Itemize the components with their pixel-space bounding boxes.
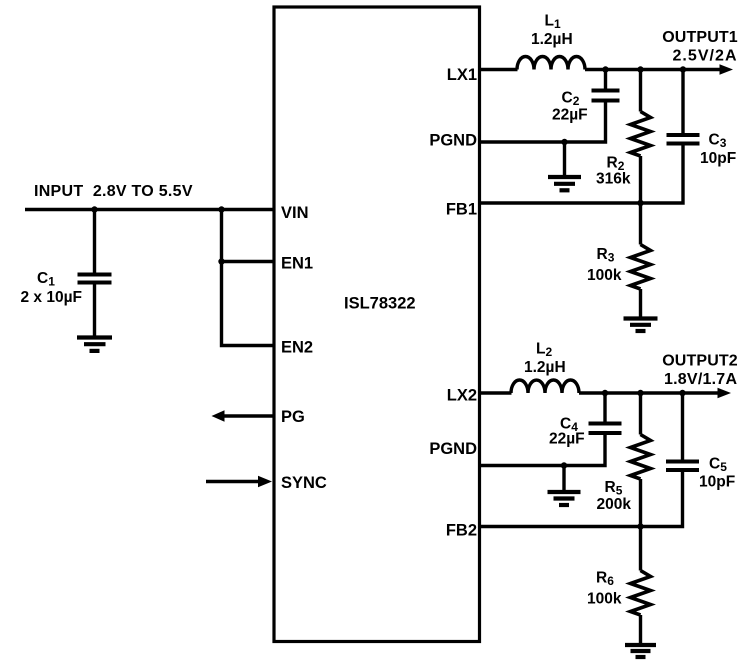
node junction input/C1	[91, 206, 97, 212]
svg-text:1.2µH: 1.2µH	[524, 359, 566, 376]
capacitor C4	[589, 393, 622, 433]
node junction output2/C4	[602, 390, 608, 396]
wire EN1	[222, 260, 275, 263]
capacitor C1	[78, 210, 112, 337]
svg-text:316k: 316k	[596, 171, 631, 188]
node junction FB2/R5/R6	[637, 523, 643, 529]
wire FB2	[480, 472, 683, 527]
svg-text:100k: 100k	[587, 267, 622, 284]
IC U1 ISL78322 body	[274, 7, 480, 642]
svg-text:100k: 100k	[587, 591, 622, 608]
svg-text:22µF: 22µF	[552, 107, 588, 124]
wire PG	[222, 414, 274, 417]
svg-text:2.5V/2A: 2.5V/2A	[673, 48, 737, 65]
capacitor C5	[666, 393, 699, 470]
wire PGND2	[480, 435, 606, 466]
ground below R6	[625, 645, 656, 657]
svg-text:200k: 200k	[597, 496, 632, 513]
arrowhead PG (points left)	[212, 410, 225, 421]
capacitor C2	[592, 70, 620, 101]
svg-text:PGND: PGND	[429, 440, 477, 458]
ground below PGND2	[548, 466, 581, 506]
wire input rail to VIN	[25, 208, 274, 211]
arrowhead OUTPUT1	[720, 64, 734, 74]
wire output1 rail	[585, 68, 721, 71]
svg-text:SYNC: SYNC	[281, 474, 327, 492]
svg-text:PG: PG	[281, 408, 305, 426]
svg-text:VIN: VIN	[281, 204, 309, 222]
node junction output1/C3	[680, 66, 686, 72]
arrowhead SYNC (points right)	[258, 476, 272, 488]
inductor L1	[517, 57, 585, 70]
node junction FB1/R2/R3	[637, 200, 643, 206]
resistor R6	[631, 527, 651, 644]
node junction PGND2/ground	[561, 462, 567, 468]
arrowhead OUTPUT2	[718, 388, 732, 398]
ground below PGND1	[548, 142, 581, 190]
svg-text:EN1: EN1	[281, 255, 313, 273]
svg-text:EN2: EN2	[281, 339, 313, 357]
node junction input/EN branch	[218, 206, 224, 212]
svg-text:INPUT 2.8V TO 5.5V: INPUT 2.8V TO 5.5V	[34, 183, 193, 200]
svg-text:10pF: 10pF	[700, 150, 736, 167]
wire LX2 pin stub	[480, 391, 512, 394]
node junction output1/R2	[637, 66, 643, 72]
inductor L2	[511, 380, 579, 393]
svg-text:LX2: LX2	[447, 387, 477, 405]
wire PGND1	[480, 103, 606, 143]
wire SYNC	[206, 480, 259, 483]
node junction output2/R5	[637, 390, 643, 396]
svg-text:OUTPUT1: OUTPUT1	[662, 29, 738, 46]
wire LX1 pin stub	[480, 68, 518, 71]
svg-text:PGND: PGND	[429, 132, 477, 150]
svg-text:OUTPUT2: OUTPUT2	[662, 353, 738, 370]
capacitor C3	[667, 70, 700, 144]
svg-text:1.8V/1.7A: 1.8V/1.7A	[664, 371, 737, 388]
node junction EN branch/EN1	[218, 258, 224, 264]
resistor R2	[631, 70, 651, 204]
svg-text:FB2: FB2	[446, 522, 477, 540]
wire FB1	[480, 146, 684, 204]
wire EN branch vertical and EN2	[222, 210, 275, 346]
node junction output2/C5	[679, 390, 685, 396]
resistor R3	[631, 203, 651, 317]
node junction output1/C2	[602, 66, 608, 72]
resistor R5	[631, 393, 651, 527]
svg-text:ISL78322: ISL78322	[344, 295, 416, 313]
svg-text:22µF: 22µF	[549, 431, 585, 448]
wire output2 rail	[579, 391, 718, 394]
ground below R3	[624, 319, 658, 332]
svg-text:2 x 10µF: 2 x 10µF	[21, 289, 83, 306]
svg-text:LX1: LX1	[447, 66, 477, 84]
svg-text:FB1: FB1	[446, 201, 477, 219]
svg-text:1.2µH: 1.2µH	[531, 31, 573, 48]
ground below C1	[77, 338, 112, 351]
svg-text:10pF: 10pF	[699, 474, 735, 491]
node junction PGND1/ground	[561, 139, 567, 145]
